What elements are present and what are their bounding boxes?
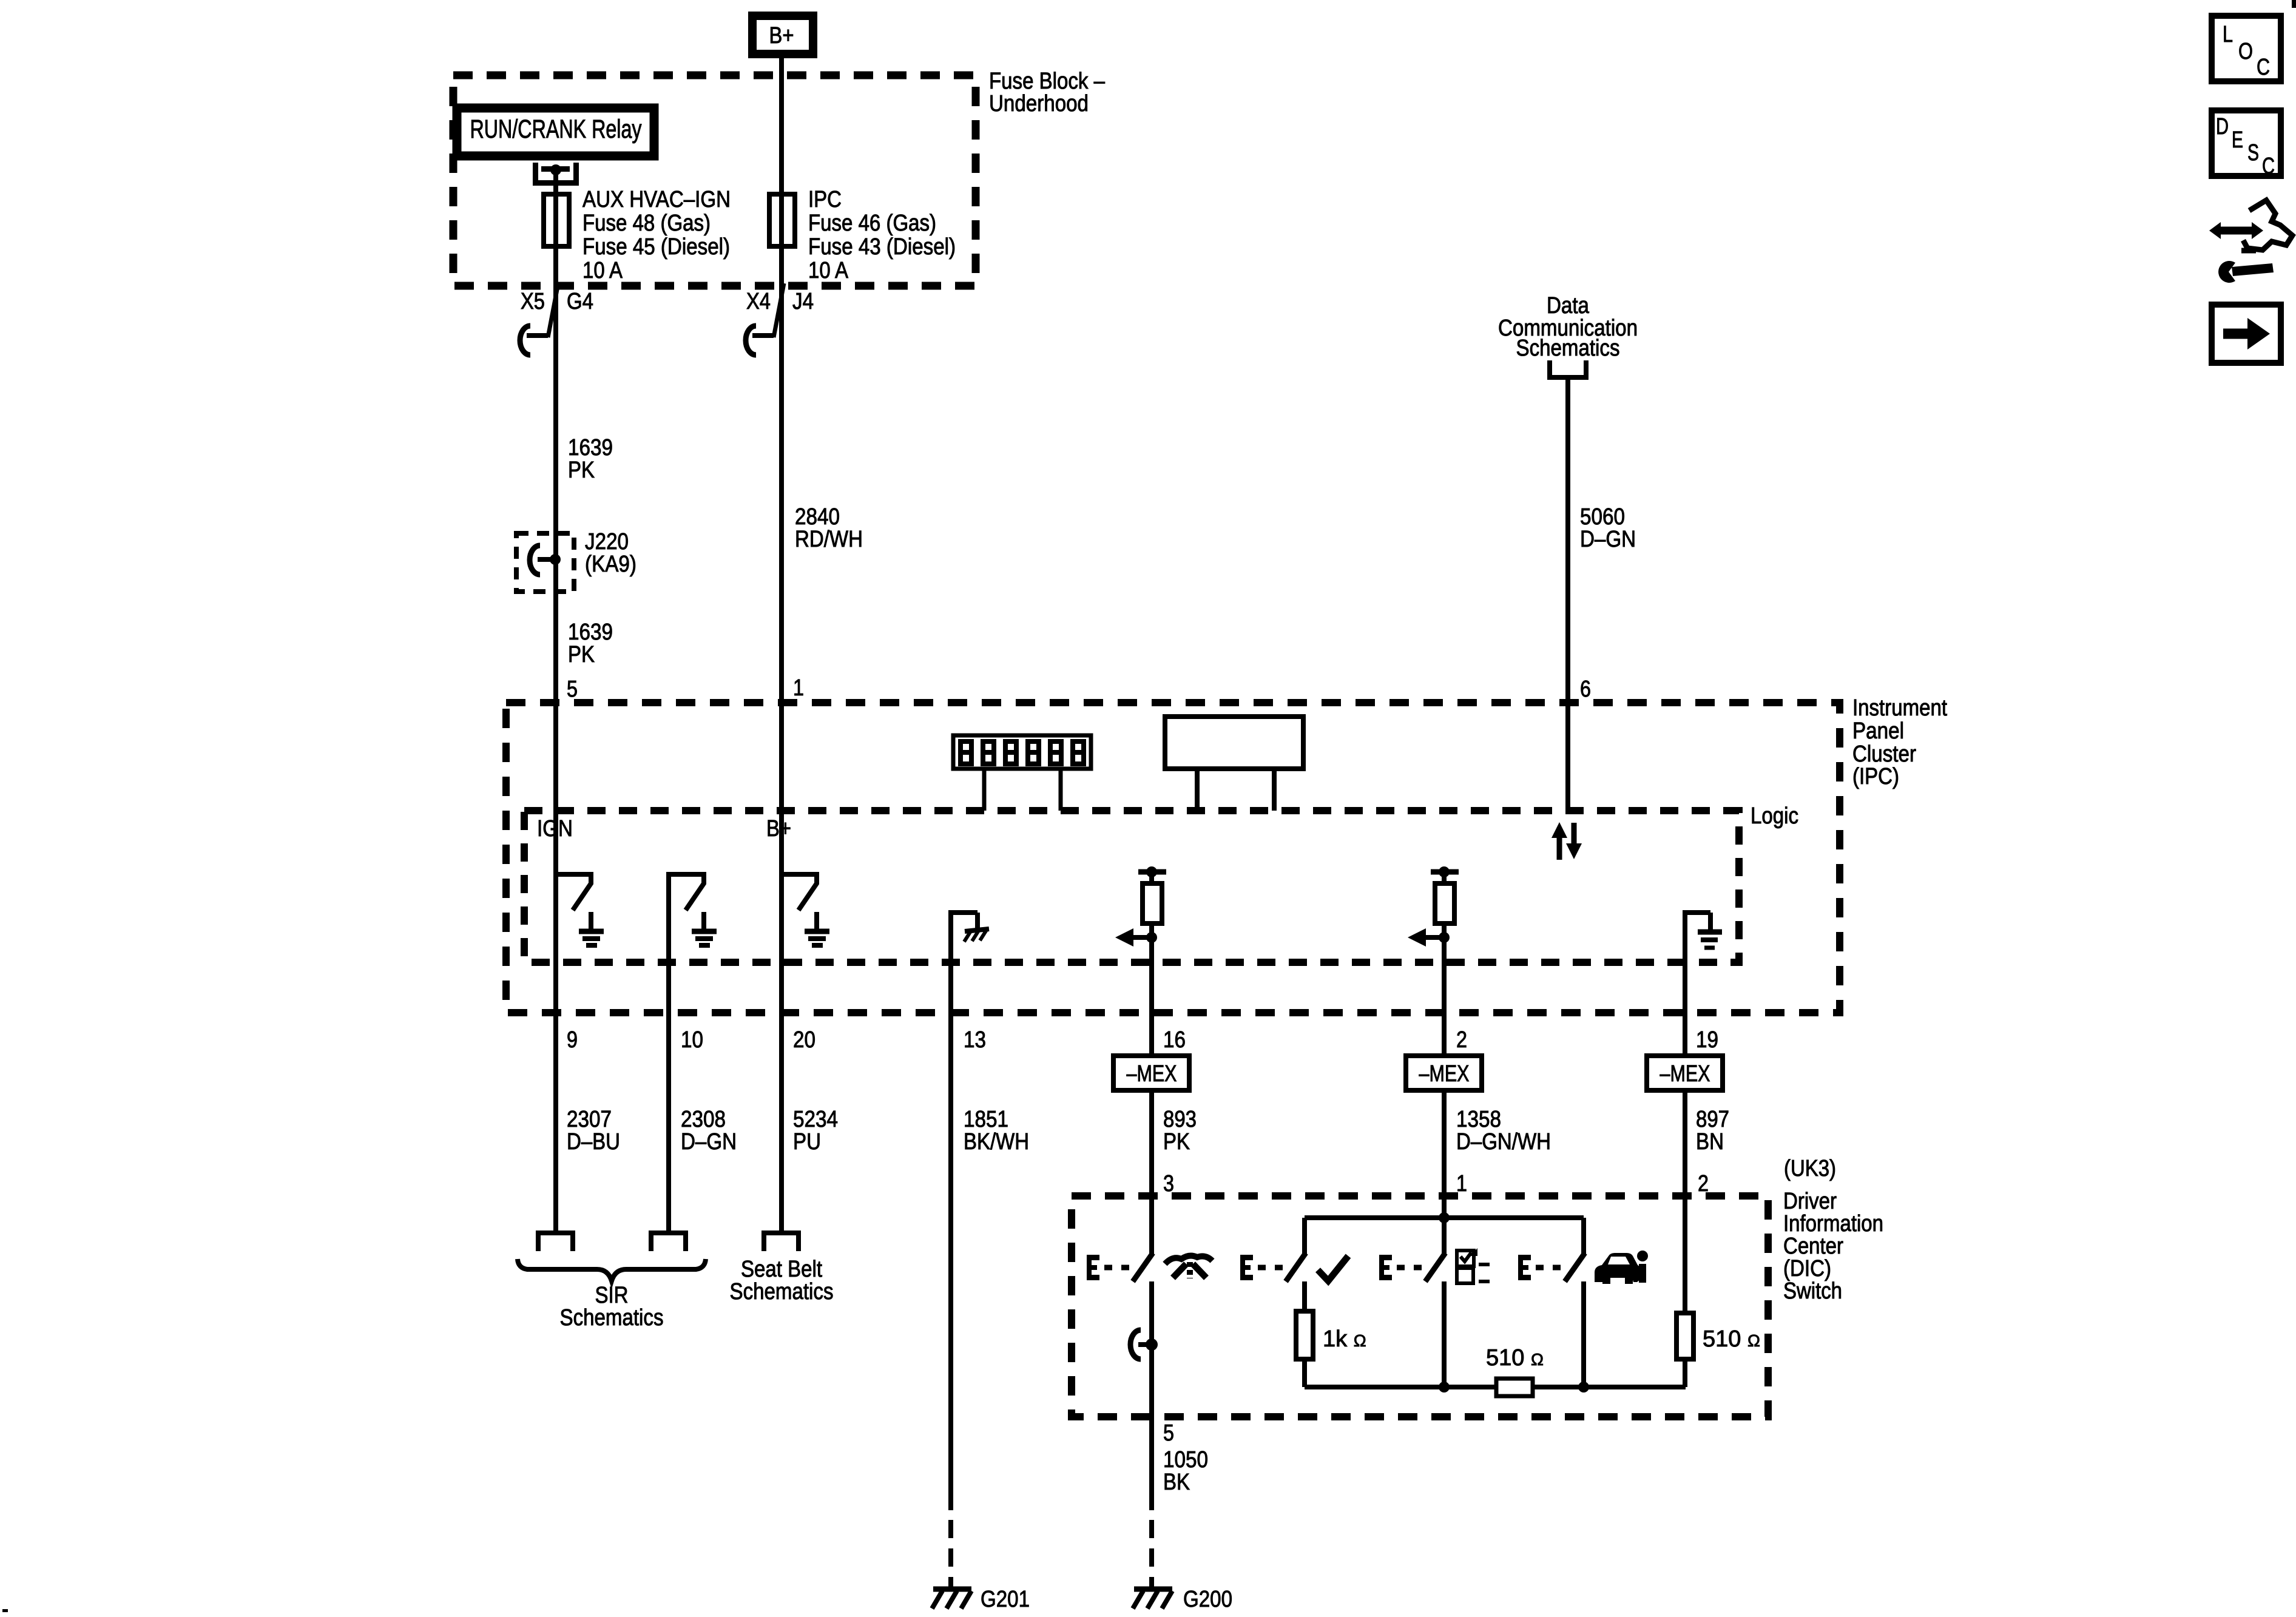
label wire 897 BN	[1696, 1107, 1729, 1155]
label Seat Belt Schematics	[730, 1257, 834, 1305]
svg-text:RUN/CRANK Relay: RUN/CRANK Relay	[470, 115, 642, 144]
svg-text:Seat Belt: Seat Belt	[741, 1257, 822, 1282]
ground G201	[932, 1589, 971, 1609]
connector -MEX box wire 16	[1113, 1056, 1189, 1090]
label B+	[766, 816, 791, 842]
svg-text:5234: 5234	[793, 1107, 838, 1132]
svg-text:(KA9): (KA9)	[585, 552, 636, 577]
display blank box in IPC	[1165, 717, 1303, 811]
svg-text:PK: PK	[1163, 1129, 1190, 1155]
wire pin 10 vertical	[666, 872, 671, 1230]
label wire 1050 BK	[1163, 1447, 1208, 1495]
label J220 (KA9)	[585, 529, 636, 577]
svg-text:1k Ω: 1k Ω	[1323, 1326, 1366, 1352]
svg-text:2840: 2840	[795, 504, 840, 530]
label 510 ohm bus	[1486, 1345, 1544, 1371]
label wire 5060 D-GN	[1580, 504, 1636, 552]
svg-text:Fuse 48 (Gas): Fuse 48 (Gas)	[582, 211, 711, 236]
label X5 G4	[521, 289, 593, 314]
connector X5/G4 pass-through slash	[548, 283, 558, 337]
label X4 J4	[746, 289, 814, 314]
svg-text:BN: BN	[1696, 1129, 1724, 1155]
page mark bottom left	[2, 1609, 8, 1612]
pin 9 label	[567, 1027, 578, 1053]
svg-text:IGN: IGN	[537, 816, 573, 842]
svg-text:E: E	[2232, 127, 2243, 153]
svg-text:G201: G201	[981, 1587, 1030, 1612]
svg-text:IPC: IPC	[808, 187, 842, 212]
svg-text:Information: Information	[1783, 1211, 1883, 1237]
svg-text:893: 893	[1163, 1107, 1197, 1132]
svg-text:Underhood: Underhood	[989, 91, 1089, 116]
svg-text:2: 2	[1456, 1027, 1467, 1053]
svg-text:6: 6	[1580, 677, 1591, 702]
icon checkmark	[1318, 1256, 1348, 1281]
DIC bottom bus with 510 ohm	[1305, 1379, 1686, 1396]
svg-text:1050: 1050	[1163, 1447, 1208, 1473]
wire serial data (circuit 5060)	[1565, 380, 1570, 811]
node B+ power feed box	[748, 12, 817, 58]
wire IGN feed vertical (circuit 1639)	[553, 170, 558, 1230]
connector socket SIR wire 9	[536, 1230, 575, 1251]
wire below switch 1 with splice hook	[1130, 1281, 1158, 1420]
wire pin 2 DIC with 510 ohm resistor	[1676, 1090, 1693, 1387]
label wire 1851 BK/WH	[964, 1107, 1029, 1155]
svg-text:Schematics: Schematics	[560, 1305, 664, 1331]
label fuse 46	[808, 187, 956, 283]
svg-text:(DIC): (DIC)	[1783, 1256, 1831, 1281]
svg-text:Cluster: Cluster	[1852, 741, 1916, 767]
label Driver Information Center (DIC) Switch	[1783, 1189, 1883, 1304]
connector -MEX box wire 19	[1647, 1056, 1723, 1090]
svg-text:20: 20	[793, 1027, 815, 1053]
DIC top bus from pin 1	[1305, 1090, 1584, 1254]
label G201	[981, 1587, 1030, 1612]
svg-text:–MEX: –MEX	[1660, 1061, 1710, 1087]
wire pin 19 internal ground (circuit 897)	[1683, 910, 1722, 1056]
label 1k ohm	[1323, 1326, 1366, 1352]
relay RUN/CRANK Relay box	[457, 108, 654, 156]
svg-text:S: S	[2247, 140, 2259, 166]
svg-text:(UK3): (UK3)	[1784, 1156, 1836, 1181]
svg-text:X4: X4	[746, 289, 771, 314]
svg-text:Fuse 43 (Diesel): Fuse 43 (Diesel)	[808, 234, 956, 260]
icon vehicle information	[1595, 1251, 1648, 1284]
svg-text:AUX HVAC–IGN: AUX HVAC–IGN	[582, 187, 731, 212]
switch 2 E drive	[1240, 1255, 1285, 1280]
wire below switch 4	[1581, 1281, 1586, 1387]
switch IGN sense with ground (wire 9)	[553, 874, 604, 945]
svg-text:B+: B+	[766, 816, 791, 842]
resistor pull-up with output arrow (wire 2)	[1408, 866, 1459, 947]
label Instrument Panel Cluster (IPC)	[1852, 695, 1947, 789]
svg-text:Fuse 45 (Diesel): Fuse 45 (Diesel)	[582, 234, 730, 260]
label wire 893 PK	[1163, 1107, 1197, 1155]
page mark top right	[2292, 0, 2296, 8]
svg-text:10: 10	[681, 1027, 703, 1053]
svg-text:BK/WH: BK/WH	[964, 1129, 1029, 1155]
pin 5 label IPC top	[567, 677, 578, 702]
svg-text:1639: 1639	[568, 619, 613, 645]
svg-text:1639: 1639	[568, 435, 613, 461]
wire below switch 3	[1442, 1281, 1447, 1387]
logic dashed box	[524, 811, 1739, 962]
label fuse 48	[582, 187, 731, 283]
wire B+ feed vertical (pin 1 circuit 2840)	[779, 58, 784, 1230]
pin 20 label	[793, 1027, 815, 1053]
fuse AUX HVAC-IGN Fuse 48	[544, 194, 569, 246]
switch 1 trip lever	[1133, 1253, 1153, 1281]
connector -MEX box wire 2	[1406, 1056, 1482, 1090]
margin icon next arrow box	[2212, 305, 2281, 363]
label wire 1358 D-GN/WH	[1456, 1107, 1551, 1155]
label Logic	[1751, 803, 1798, 829]
svg-text:Switch: Switch	[1783, 1278, 1842, 1304]
svg-text:PK: PK	[568, 457, 595, 483]
svg-text:RD/WH: RD/WH	[795, 527, 863, 552]
svg-text:J220: J220	[585, 529, 629, 555]
svg-text:G4: G4	[567, 289, 593, 314]
svg-text:1851: 1851	[964, 1107, 1008, 1132]
svg-text:5060: 5060	[1580, 504, 1625, 530]
svg-text:Driver: Driver	[1783, 1189, 1837, 1214]
svg-text:(IPC): (IPC)	[1852, 764, 1899, 789]
label (UK3)	[1784, 1156, 1836, 1181]
pin 16 label	[1163, 1027, 1186, 1053]
svg-text:1: 1	[793, 675, 804, 701]
label wire 5234 PU	[793, 1107, 838, 1155]
pin 2 label DIC	[1698, 1171, 1709, 1197]
svg-text:5: 5	[567, 677, 578, 702]
resistor pull-up with output arrow (wire 16)	[1115, 866, 1166, 947]
svg-text:J4: J4	[792, 289, 814, 314]
IPC instrument panel cluster dashed box	[506, 703, 1840, 1013]
svg-text:C: C	[2262, 154, 2275, 179]
label Fuse Block - Underhood	[989, 69, 1106, 116]
brace under SIR wires	[518, 1259, 706, 1281]
svg-text:PK: PK	[568, 642, 595, 667]
svg-text:D–BU: D–BU	[567, 1129, 620, 1155]
svg-text:L: L	[2223, 22, 2233, 47]
label G200	[1183, 1587, 1232, 1612]
connector hook at X5	[520, 326, 548, 355]
svg-text:Data: Data	[1547, 293, 1590, 319]
wire pin 2 vertical (circuit 1358)	[1442, 937, 1447, 1056]
svg-text:D–GN: D–GN	[681, 1129, 737, 1155]
svg-text:10 A: 10 A	[582, 258, 623, 283]
switch 1 E drive	[1087, 1255, 1132, 1280]
svg-text:Fuse Block –: Fuse Block –	[989, 69, 1106, 94]
svg-text:5: 5	[1163, 1420, 1174, 1446]
margin icon DESC box	[2212, 110, 2281, 179]
wire pin 13 chassis ground return	[948, 910, 989, 1510]
svg-text:Schematics: Schematics	[730, 1279, 834, 1305]
resistor 1k ohm	[1296, 1281, 1313, 1387]
svg-text:Logic: Logic	[1751, 803, 1798, 829]
connector X4/J4 pass-through slash	[774, 283, 784, 337]
pin 1 label DIC	[1456, 1171, 1467, 1197]
pin 5 label DIC bottom	[1163, 1420, 1174, 1446]
label wire 1639 PK upper	[568, 435, 613, 483]
DIC switch dashed box	[1072, 1196, 1768, 1417]
label wire 2840 RD/WH	[795, 504, 863, 552]
svg-text:G200: G200	[1183, 1587, 1232, 1612]
pin 3 label DIC	[1163, 1171, 1174, 1197]
svg-text:19: 19	[1696, 1027, 1718, 1053]
connector socket SIR wire 10	[649, 1230, 688, 1251]
svg-text:16: 16	[1163, 1027, 1186, 1053]
margin icon LOC box	[2212, 16, 2281, 81]
svg-text:9: 9	[567, 1027, 578, 1053]
svg-text:D–GN: D–GN	[1580, 527, 1636, 552]
switch with ground (wire 10)	[666, 874, 717, 945]
icon trip stem	[1165, 1256, 1212, 1278]
label wire 1639 PK lower	[568, 619, 613, 667]
svg-text:PU: PU	[793, 1129, 821, 1155]
label 510 ohm right	[1703, 1326, 1760, 1352]
relay contact terminal cup	[533, 163, 579, 186]
svg-text:13: 13	[964, 1027, 986, 1053]
svg-text:2307: 2307	[567, 1107, 612, 1132]
ground G200	[1133, 1589, 1172, 1609]
svg-text:SIR: SIR	[595, 1283, 629, 1308]
svg-text:–MEX: –MEX	[1127, 1061, 1177, 1087]
switch 2 lever	[1286, 1253, 1306, 1281]
odometer seven-segment display in IPC	[953, 735, 1091, 811]
svg-text:BK: BK	[1163, 1470, 1190, 1495]
pin 2 label	[1456, 1027, 1467, 1053]
label data comm schematics	[1498, 293, 1638, 361]
switch 4 lever	[1565, 1253, 1585, 1281]
svg-text:X5: X5	[521, 289, 545, 314]
switch 3 lever	[1425, 1253, 1445, 1281]
svg-text:–MEX: –MEX	[1419, 1061, 1470, 1087]
svg-text:Schematics: Schematics	[1516, 336, 1620, 361]
svg-text:897: 897	[1696, 1107, 1729, 1132]
switch B+ sense with ground (wire 20)	[779, 874, 829, 945]
switch 3 E drive	[1379, 1255, 1424, 1280]
pin 13 label	[964, 1027, 986, 1053]
svg-text:1358: 1358	[1456, 1107, 1501, 1132]
svg-text:O: O	[2238, 39, 2253, 64]
wire 1050 below DIC to G200	[1149, 1420, 1154, 1589]
label wire 2308 D-GN	[681, 1107, 737, 1155]
wire pin 16 vertical (circuit 893)	[1149, 937, 1154, 1056]
pin 1 label IPC top	[793, 675, 804, 701]
svg-text:10 A: 10 A	[808, 258, 849, 283]
splice J220 (KA9) dashed box	[516, 533, 574, 592]
switch 4 E drive	[1518, 1255, 1563, 1280]
fuse block underhood dashed box	[453, 75, 976, 286]
margin icon harness repair wrench	[2209, 200, 2292, 283]
connector hook at X4	[746, 326, 774, 355]
svg-text:2308: 2308	[681, 1107, 726, 1132]
connector socket seat belt wire 20	[761, 1230, 801, 1251]
pin 19 label	[1696, 1027, 1718, 1053]
icon menu list	[1457, 1248, 1490, 1283]
label IGN	[537, 816, 573, 842]
pin 6 label IPC top	[1580, 677, 1591, 702]
wire pin 3 into DIC to switch 1	[1149, 1090, 1154, 1254]
svg-text:C: C	[2257, 55, 2270, 80]
data link up/down arrows	[1551, 822, 1582, 860]
svg-text:Panel: Panel	[1852, 718, 1904, 744]
wire to G201 dashed tail	[948, 1520, 953, 1589]
svg-text:B+: B+	[769, 23, 794, 49]
svg-text:D–GN/WH: D–GN/WH	[1456, 1129, 1551, 1155]
svg-text:510 Ω: 510 Ω	[1703, 1326, 1760, 1352]
svg-text:D: D	[2216, 114, 2229, 140]
connector socket to data communication schematics	[1547, 360, 1589, 380]
label wire 2307 D-BU	[567, 1107, 620, 1155]
fuse IPC Fuse 46	[769, 194, 795, 246]
svg-text:Center: Center	[1783, 1234, 1843, 1259]
svg-text:Fuse 46 (Gas): Fuse 46 (Gas)	[808, 211, 936, 236]
label SIR Schematics	[560, 1283, 664, 1331]
svg-text:Instrument: Instrument	[1852, 695, 1947, 721]
pin 10 label	[681, 1027, 703, 1053]
svg-text:510 Ω: 510 Ω	[1486, 1345, 1544, 1371]
